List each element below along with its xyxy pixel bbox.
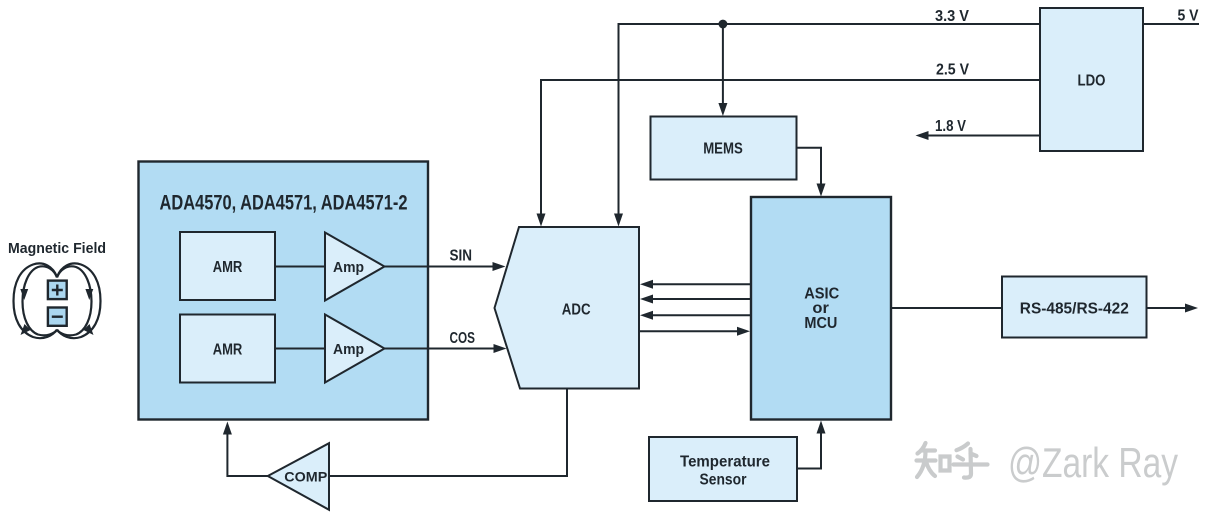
svg-text:1.8 V: 1.8 V [935, 118, 966, 135]
svg-text:3.3 V: 3.3 V [935, 8, 969, 25]
magnet field line outer-right [57, 263, 101, 338]
wire ASIC to RS-485 [891, 307, 1002, 309]
amp triangle bottom [325, 315, 385, 383]
svg-text:MEMS: MEMS [703, 141, 743, 158]
wire 3.3V branch to MEMS [718, 24, 727, 116]
block MEMS [651, 117, 797, 180]
magnet pole minus [48, 308, 67, 326]
amp triangle top [325, 233, 385, 301]
wire 5V from LDO [1143, 23, 1199, 25]
block ADC [495, 227, 640, 389]
svg-text:Magnetic Field: Magnetic Field [8, 241, 106, 257]
wire COS with arrow into ADC [385, 344, 507, 353]
junction dot on 3.3V rail [719, 20, 728, 29]
wire SIN with arrow into ADC [385, 262, 506, 271]
wire 2.5V from LDO to ADC [537, 80, 1041, 227]
wire ASIC to ADC bus arrow 1 [640, 280, 751, 289]
field arrow right-outer [84, 324, 94, 335]
svg-text:@Zark Ray: @Zark Ray [1008, 439, 1178, 486]
wire COMP to ADA with up arrow [223, 422, 268, 477]
block AMR bottom [180, 315, 275, 383]
comparator COMP [268, 443, 329, 510]
svg-text:Sensor: Sensor [700, 472, 747, 489]
wire 3.3V from LDO to ADC [614, 24, 1040, 227]
svg-text:RS-485/RS-422: RS-485/RS-422 [1020, 300, 1129, 317]
field arrow left-outer [21, 324, 31, 335]
wire AMR1 to Amp1 [275, 266, 325, 268]
svg-text:AMR: AMR [213, 341, 243, 358]
magnet field line inner-right [57, 266, 92, 335]
svg-text:COS: COS [450, 330, 476, 347]
svg-text:ADA4570, ADA4571, ADA4571-2: ADA4570, ADA4571, ADA4571-2 [160, 192, 408, 215]
wire Temperature Sensor to ASIC [797, 421, 826, 469]
block ASIC or MCU [751, 197, 891, 420]
field arrow right-inner [85, 289, 93, 300]
wire 1.8V from LDO (arrow left) [916, 131, 1041, 140]
wire ASIC to ADC bus arrow 2 [640, 295, 751, 304]
magnet pole plus [48, 281, 67, 300]
field arrow left-inner [20, 289, 28, 300]
wire ADC to COMP feedback [329, 389, 567, 477]
block LDO [1040, 8, 1143, 151]
svg-text:AMR: AMR [213, 259, 243, 276]
svg-text:MCU: MCU [804, 315, 837, 332]
svg-text:Amp: Amp [333, 341, 364, 358]
wire MEMS to ASIC [797, 148, 826, 197]
magnet field line outer-left [14, 263, 58, 338]
svg-text:Amp: Amp [333, 259, 364, 276]
wire ASIC to ADC bus arrow 3 [640, 311, 751, 320]
block AMR top [180, 232, 275, 300]
block RS-485/RS-422 [1002, 277, 1147, 338]
svg-text:COMP: COMP [284, 469, 327, 485]
svg-text:ADC: ADC [562, 302, 591, 319]
block ADA4570/ADA4571/ADA4571-2 [139, 162, 429, 420]
svg-text:SIN: SIN [450, 247, 473, 264]
wire RS-485 output arrow [1147, 304, 1199, 313]
svg-text:5 V: 5 V [1178, 8, 1199, 25]
svg-text:2.5 V: 2.5 V [936, 62, 969, 79]
watermark zhihu glyphs [917, 443, 988, 478]
wire ADC to ASIC arrow [639, 327, 750, 336]
magnet field line inner-left [23, 266, 58, 335]
svg-text:LDO: LDO [1078, 72, 1106, 89]
block Temperature Sensor [649, 437, 797, 501]
svg-text:Temperature: Temperature [680, 454, 770, 471]
wire AMR2 to Amp2 [275, 348, 325, 350]
